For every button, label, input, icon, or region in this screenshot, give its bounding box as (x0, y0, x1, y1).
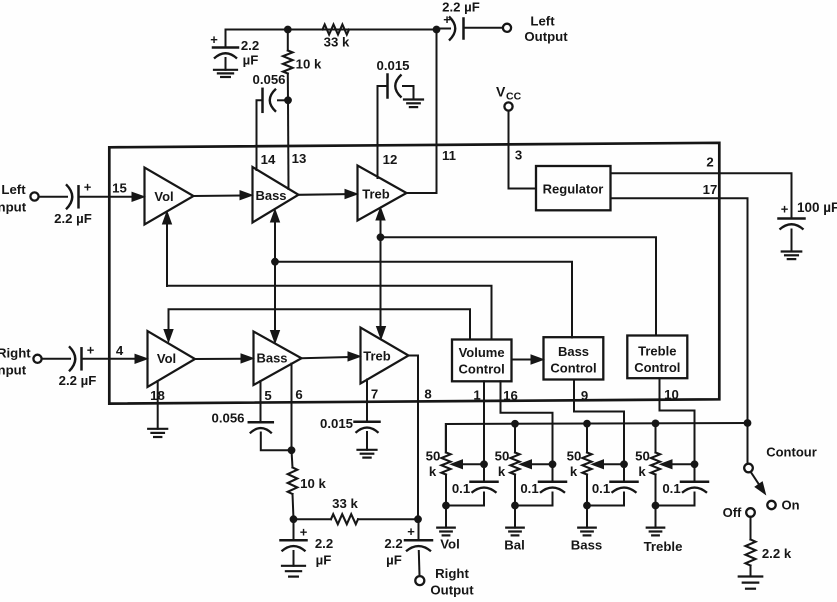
potentiometer P4 Treble 50 k (635, 424, 660, 506)
pin 5 label (264, 388, 271, 403)
svg-text:9: 9 (581, 388, 588, 403)
wire row to Bass Control (275, 262, 572, 338)
wire regulator pin 17 down right side (611, 198, 748, 463)
label Treble (644, 539, 683, 554)
svg-text:+: + (407, 524, 415, 539)
svg-text:7: 7 (371, 387, 378, 402)
switch SW1 Off contact (723, 505, 755, 520)
pin 11 label (442, 148, 456, 163)
wire Bass out to Treb in (right) (302, 357, 350, 358)
arrow into Vol left (132, 192, 145, 201)
pin 13 label (292, 151, 307, 166)
svg-text:Input: Input (0, 363, 27, 378)
svg-text:+: + (84, 180, 92, 195)
capacitor 0.1 at P2 Bal (520, 464, 566, 505)
svg-text:50: 50 (567, 449, 582, 464)
svg-text:On: On (781, 498, 799, 513)
op-amp Bass right channel (254, 332, 302, 386)
node Bass control junction (271, 258, 279, 266)
label Bal (504, 538, 525, 553)
wire top rail (226, 29, 437, 31)
node wiper junction P3 Bass (620, 460, 628, 468)
op-amp Treb left channel (358, 166, 407, 221)
wire control pot supply rail (446, 423, 748, 453)
wire pot bottom P4 Treble (656, 505, 695, 507)
node wiper junction P2 Bal (549, 460, 557, 468)
svg-text:+: + (300, 525, 308, 540)
svg-text:CC: CC (506, 91, 522, 103)
wire Treb control vertical (380, 214, 382, 333)
wire Bass out to Treb in (left) (299, 193, 347, 196)
wire pin 18 to ground (157, 381, 159, 429)
svg-text:3: 3 (515, 148, 522, 163)
pin 14 label (261, 152, 276, 167)
wire pin 16 stepped (501, 381, 553, 464)
terminal Right Output (415, 566, 474, 597)
arrow into Bass left underside (271, 210, 280, 223)
node rail pot2 (511, 420, 519, 428)
svg-text:Left: Left (1, 182, 26, 197)
block Volume Control (452, 340, 512, 382)
svg-text:10: 10 (664, 387, 679, 402)
pin 6 label (295, 387, 302, 402)
wire pin 10 stepped (660, 378, 695, 464)
ground below C9 (358, 450, 377, 458)
block Bass Control (544, 337, 604, 379)
wire Vol out to Bass in (right) (195, 358, 242, 360)
svg-text:50: 50 (635, 449, 650, 464)
svg-text:Control: Control (458, 361, 504, 376)
potentiometer P3 Bass 50 k (567, 424, 592, 506)
block Treble Control (627, 336, 687, 379)
wire pot bottom P2 Bal (515, 505, 553, 507)
svg-text:0.056: 0.056 (211, 411, 244, 426)
ground below C3 (214, 70, 237, 77)
capacitor 0.1 at P1 Vol (452, 464, 498, 505)
node rail pot4 (652, 420, 660, 428)
capacitor 0.1 at P3 Bass (592, 464, 638, 505)
label Vol (440, 537, 460, 552)
svg-text:µF: µF (316, 553, 332, 568)
wire input to C1 (41, 196, 68, 198)
wire pot bottom P1 Vol (446, 505, 484, 507)
svg-text:16: 16 (503, 388, 518, 403)
svg-text:Vol: Vol (154, 189, 173, 204)
wire C2 to pin 4 (82, 358, 137, 360)
ground below R5 (739, 577, 763, 589)
svg-text:Bass: Bass (255, 188, 286, 203)
node pot bottom junction P1 Vol (442, 502, 450, 510)
svg-text:0.015: 0.015 (320, 416, 353, 431)
ground pin 18 (148, 429, 167, 437)
wire to ground P4 Treble (655, 506, 657, 528)
svg-text:Treb: Treb (363, 349, 391, 364)
resistor R4 33 k bottom (294, 496, 419, 524)
wire C7 to ground (791, 230, 793, 252)
wire Bass control vertical (274, 216, 276, 337)
wire row to Volume Control (lower) (169, 309, 471, 339)
svg-text:0.015: 0.015 (376, 58, 409, 73)
ground below P4 Treble (647, 528, 665, 536)
svg-text:+: + (781, 202, 789, 217)
node pot bottom junction P4 Treble (652, 502, 660, 510)
resistor R2 33 k top (323, 25, 350, 50)
ground below C5 (404, 100, 423, 108)
svg-text:Bal: Bal (504, 538, 525, 553)
arrow into Treb right (348, 352, 361, 361)
wire C1 to pin 15 (79, 196, 134, 198)
capacitor C11 2.2uF right output (384, 519, 432, 567)
resistor R1 10 k top (283, 30, 322, 101)
svg-text:5: 5 (264, 388, 271, 403)
svg-text:2.2 k: 2.2 k (762, 546, 792, 561)
wire pin 1 vertical (483, 381, 485, 464)
svg-text:0.1: 0.1 (520, 481, 538, 496)
wire row to Treble Control (381, 237, 657, 335)
op-amp Treb right channel (361, 328, 409, 384)
svg-text:Off: Off (723, 505, 742, 520)
pin 8 label (424, 387, 431, 402)
pin 3 label (515, 148, 522, 163)
node pin 13 junction (284, 96, 292, 104)
resistor R3 10 k bottom (288, 450, 327, 519)
svg-text:50: 50 (495, 449, 510, 464)
op-amp Vol right channel (148, 331, 196, 387)
wire Vol out to Bass in (left) (194, 195, 242, 198)
svg-text:Treble: Treble (638, 344, 676, 359)
svg-text:13: 13 (292, 151, 307, 166)
wire input to C2 (44, 358, 71, 360)
node R4/pin8/C11 junction (414, 515, 422, 523)
node rail contour junction (744, 419, 752, 427)
capacitor C8 0.056 bottom (211, 381, 291, 450)
svg-text:14: 14 (261, 152, 276, 167)
arrow into Bass left (240, 191, 253, 200)
ground below P3 Bass (578, 528, 596, 536)
wire pin 13 vertical (287, 100, 290, 189)
arrow into Vol left underside (163, 212, 172, 225)
arrow into Bass Control (531, 355, 544, 364)
node wiper junction P4 Treble (691, 460, 699, 468)
pin 12 label (383, 152, 398, 167)
terminal Left Input (0, 182, 39, 215)
svg-text:33 k: 33 k (332, 496, 358, 511)
ground below P2 Bal (506, 528, 524, 536)
pin 4 label (116, 343, 124, 358)
capacitor C7 100uF (779, 200, 837, 230)
ground below C7 (782, 252, 802, 260)
wire to ground P2 Bal (514, 506, 516, 528)
capacitor C1 2.2uF left input (54, 180, 92, 227)
wire pin 6 vertical (291, 364, 293, 451)
resistor R5 2.2 k (746, 540, 792, 577)
svg-text:Output: Output (430, 582, 474, 597)
svg-text:V: V (496, 84, 506, 100)
wire C5 to ground (413, 86, 415, 100)
svg-text:Treb: Treb (362, 187, 390, 202)
svg-text:Treble: Treble (644, 539, 683, 554)
svg-text:2.2: 2.2 (384, 536, 402, 551)
capacitor C9 0.015 bottom (320, 380, 380, 450)
svg-text:µF: µF (386, 553, 402, 568)
node top rail / output cap junction (433, 26, 441, 34)
wire C6 to terminal (464, 27, 502, 29)
capacitor C3 2.2uF top-left (210, 30, 259, 68)
wire C10 to ground (293, 551, 295, 566)
wiper arrow P3 Bass (592, 460, 625, 469)
pin 2 label (706, 155, 713, 170)
svg-text:0.1: 0.1 (662, 481, 680, 496)
capacitor C6 2.2uF left output (437, 0, 480, 41)
arrow into Treb right topside (377, 327, 386, 340)
svg-text:k: k (498, 464, 506, 479)
capacitor C2 2.2uF right input (59, 343, 97, 389)
svg-text:50: 50 (426, 449, 441, 464)
svg-text:Output: Output (524, 29, 568, 44)
pin 1 label (473, 388, 480, 403)
wire Treb out down to pin 8 (409, 356, 419, 520)
wire VCC to regulator pin 3 (509, 111, 537, 189)
svg-text:2.2 µF: 2.2 µF (54, 211, 92, 226)
wiper arrow P2 Bal (520, 460, 553, 469)
svg-text:+: + (210, 32, 218, 47)
arrow into Bass right (241, 354, 254, 363)
svg-text:Vol: Vol (157, 351, 176, 366)
wire Vol-left control vertical (166, 218, 168, 286)
node pot bottom junction P2 Bal (511, 502, 519, 510)
svg-text:Bass: Bass (571, 538, 603, 553)
block Regulator (536, 166, 611, 210)
terminal VCC (496, 84, 522, 111)
svg-text:Bass: Bass (256, 351, 287, 366)
wire regulator pin 2 to C7 (611, 173, 792, 218)
svg-text:Contour: Contour (766, 445, 817, 460)
wiper arrow P1 Vol (451, 460, 485, 469)
svg-text:17: 17 (703, 182, 718, 197)
pin 16 label (503, 388, 518, 403)
svg-text:Regulator: Regulator (543, 181, 604, 196)
svg-text:Bass: Bass (558, 344, 589, 359)
svg-text:+: + (87, 343, 95, 358)
svg-text:33 k: 33 k (324, 35, 350, 50)
ground below C10 (282, 566, 305, 577)
svg-text:Left: Left (530, 14, 555, 29)
pin 9 label (581, 388, 588, 403)
node Treb control junction (377, 233, 385, 241)
wire C11 to terminal (418, 551, 421, 576)
svg-text:12: 12 (383, 152, 398, 167)
wire pot bottom P3 Bass (587, 505, 624, 507)
pin 15 label (112, 181, 127, 196)
svg-text:2.2 µF: 2.2 µF (59, 373, 97, 388)
svg-text:k: k (570, 464, 578, 479)
node pot bottom junction P3 Bass (583, 502, 591, 510)
wire pin 9 stepped (574, 380, 624, 465)
arrow into Treb left underside (376, 208, 385, 221)
capacitor C10 2.2uF (281, 519, 334, 567)
arrow into Vol right topside (164, 330, 173, 343)
svg-text:8: 8 (424, 387, 431, 402)
switch SW1 On contact (767, 498, 799, 513)
node pin6/C8/R3 junction (288, 446, 296, 454)
node rail pot3 (583, 420, 591, 428)
svg-text:18: 18 (150, 388, 165, 403)
wire to ground P1 Vol (445, 506, 447, 528)
svg-text:Right: Right (0, 346, 31, 361)
IC package outline U1 (109, 143, 719, 404)
wire Off to R5 (750, 517, 752, 540)
svg-text:2.2 µF: 2.2 µF (442, 0, 480, 15)
svg-text:4: 4 (116, 343, 124, 358)
pin 7 label (371, 387, 378, 402)
potentiometer P2 Bal 50 k (495, 424, 520, 506)
op-amp Vol left channel (145, 168, 194, 225)
svg-text:2.2: 2.2 (241, 38, 259, 53)
terminal Left Output (503, 14, 568, 44)
svg-text:Volume: Volume (459, 345, 505, 360)
svg-text:Control: Control (550, 360, 596, 375)
capacitor 0.1 at P4 Treble (662, 464, 708, 505)
terminal Right Input (0, 346, 42, 378)
label Contour (766, 445, 817, 460)
svg-text:6: 6 (295, 387, 302, 402)
arrow into Treb left (345, 190, 358, 199)
pin 10 label (664, 387, 679, 402)
potentiometer P1 Vol 50 k (426, 424, 451, 506)
svg-text:k: k (638, 464, 646, 479)
svg-text:0.1: 0.1 (452, 481, 470, 496)
svg-text:0.1: 0.1 (592, 481, 610, 496)
svg-text:15: 15 (112, 181, 127, 196)
svg-text:1: 1 (473, 388, 480, 403)
node wiper junction P1 Vol (480, 460, 488, 468)
svg-text:10 k: 10 k (300, 476, 326, 491)
svg-text:2: 2 (706, 155, 713, 170)
node top rail / R1 junction (284, 26, 292, 34)
wire row to Volume Control (upper) (167, 286, 492, 340)
svg-text:11: 11 (442, 148, 456, 163)
svg-text:Right: Right (435, 566, 469, 581)
arrow into Vol right (135, 354, 148, 363)
wire C3 to ground (225, 58, 227, 70)
pin 18 label (150, 388, 165, 403)
pin 17 label (703, 182, 718, 197)
svg-text:µF: µF (243, 53, 259, 68)
capacitor C4 0.056 top (252, 72, 288, 170)
switch SW1 pole (744, 464, 753, 473)
svg-text:Input: Input (0, 200, 27, 215)
wire to ground P3 Bass (586, 506, 588, 528)
wire Treb out up to pin 11 (407, 30, 437, 194)
svg-text:100 µF: 100 µF (797, 200, 837, 215)
wiper arrow P4 Treble (660, 460, 695, 469)
svg-text:Vol: Vol (440, 537, 460, 552)
svg-text:k: k (429, 464, 437, 479)
svg-text:2.2: 2.2 (315, 536, 333, 551)
capacitor C5 0.015 top (376, 58, 413, 178)
label Bass (571, 538, 603, 553)
wire Volume to Bass Control link (512, 359, 534, 361)
svg-text:0.056: 0.056 (252, 72, 285, 87)
ground below P1 Vol (437, 528, 455, 536)
arrow into Bass right topside (271, 331, 280, 344)
svg-text:Control: Control (634, 360, 680, 375)
op-amp Bass left channel (253, 167, 299, 223)
svg-text:10 k: 10 k (296, 57, 322, 72)
switch SW1 arm (751, 472, 766, 494)
node R3/R4/C10 junction (290, 515, 298, 523)
